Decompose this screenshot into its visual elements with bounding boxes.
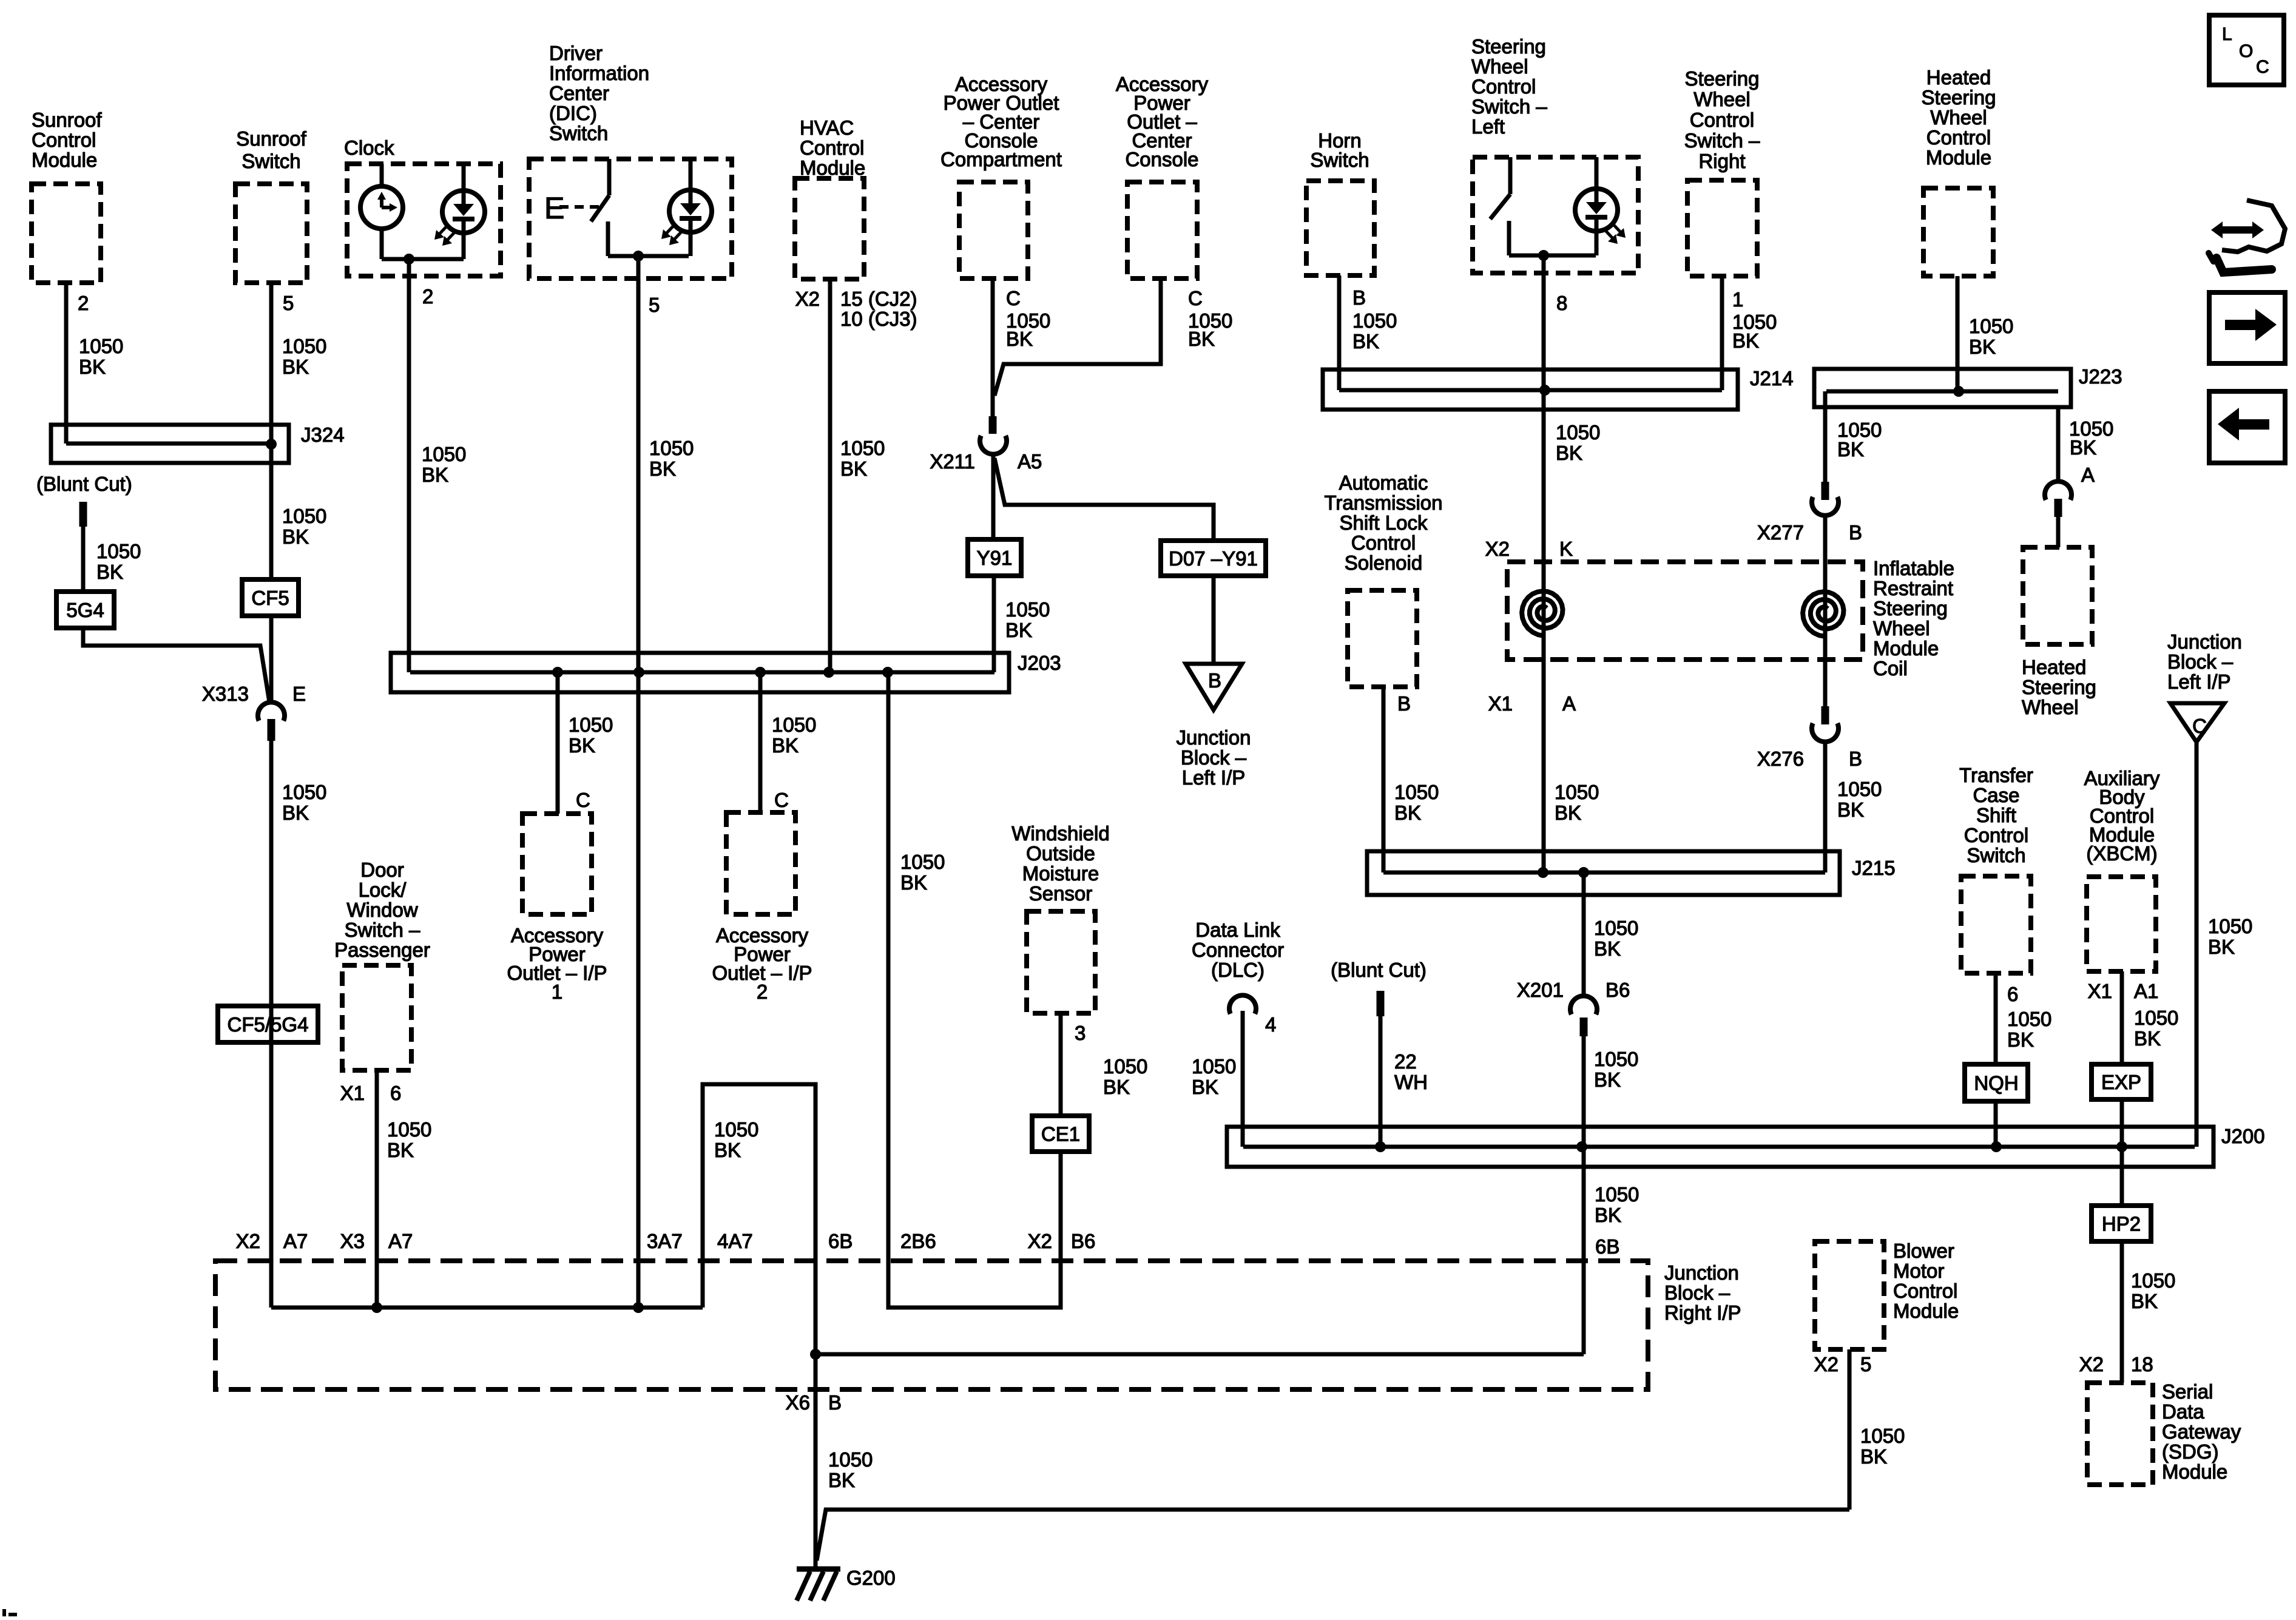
svg-text:Steering: Steering [1922, 86, 1996, 109]
svg-text:1050: 1050 [1103, 1055, 1147, 1078]
svg-text:X1: X1 [2088, 980, 2112, 1002]
svg-text:Module: Module [800, 157, 865, 179]
svg-text:Module: Module [1926, 146, 1991, 169]
svg-text:5: 5 [1860, 1353, 1871, 1375]
svg-text:BK: BK [1837, 438, 1864, 461]
svg-text:3A7: 3A7 [647, 1230, 683, 1252]
svg-text:BK: BK [1837, 798, 1864, 821]
svg-text:Switch: Switch [1967, 844, 2025, 866]
svg-text:Heated: Heated [2022, 656, 2086, 678]
svg-text:O: O [2239, 41, 2253, 61]
svg-text:15 (CJ2): 15 (CJ2) [840, 288, 917, 310]
svg-text:6: 6 [390, 1082, 401, 1104]
svg-text:B: B [1208, 669, 1221, 692]
svg-text:X3: X3 [340, 1230, 365, 1252]
svg-text:BK: BK [79, 356, 106, 378]
svg-text:C: C [2192, 715, 2207, 737]
svg-text:5G4: 5G4 [66, 599, 104, 621]
svg-text:Junction: Junction [1177, 726, 1251, 749]
svg-text:Block –: Block – [2167, 650, 2234, 673]
svg-text:X277: X277 [1757, 521, 1804, 544]
svg-text:2: 2 [78, 292, 89, 314]
svg-text:Sunroof: Sunroof [236, 127, 306, 150]
svg-text:1050: 1050 [1595, 1183, 1639, 1206]
svg-text:(XBCM): (XBCM) [2086, 842, 2157, 865]
svg-text:Junction: Junction [2167, 630, 2242, 653]
svg-text:Restraint: Restraint [1873, 577, 1953, 599]
svg-text:1: 1 [552, 980, 562, 1003]
svg-text:BK: BK [2007, 1028, 2034, 1051]
svg-text:EXP: EXP [2101, 1071, 2141, 1093]
svg-text:18: 18 [2131, 1353, 2153, 1375]
svg-text:BK: BK [2134, 1027, 2161, 1050]
svg-text:1050: 1050 [1837, 778, 1882, 800]
svg-text:BK: BK [2131, 1290, 2158, 1312]
svg-text:WH: WH [1394, 1071, 1428, 1093]
svg-text:Windshield: Windshield [1011, 822, 1109, 845]
svg-text:1050: 1050 [772, 714, 816, 736]
svg-text:J200: J200 [2221, 1125, 2265, 1147]
svg-text:HVAC: HVAC [800, 116, 854, 139]
svg-text:X6: X6 [786, 1391, 810, 1414]
svg-text:Block –: Block – [1181, 746, 1247, 769]
svg-text:Module: Module [1893, 1300, 1959, 1322]
svg-text:Left I/P: Left I/P [2167, 670, 2231, 693]
svg-text:Passenger: Passenger [334, 939, 430, 961]
svg-text:X2: X2 [795, 288, 820, 310]
svg-text:Shift: Shift [1976, 804, 2016, 826]
svg-text:BK: BK [1006, 328, 1033, 350]
svg-text:1050: 1050 [1352, 309, 1397, 332]
svg-text:Center: Center [549, 82, 609, 104]
svg-text:C: C [774, 789, 789, 811]
svg-text:G200: G200 [846, 1567, 896, 1589]
svg-text:NQH: NQH [1974, 1072, 2018, 1095]
svg-text:BK: BK [1594, 937, 1621, 960]
svg-text:Y91: Y91 [977, 547, 1013, 569]
svg-text:1050: 1050 [900, 851, 945, 873]
svg-text:1050: 1050 [569, 714, 613, 736]
svg-text:1050: 1050 [2208, 915, 2252, 937]
svg-text:Window: Window [346, 899, 418, 921]
svg-text:Information: Information [549, 62, 649, 84]
svg-text:BK: BK [1394, 802, 1421, 824]
svg-text:8: 8 [1556, 292, 1567, 314]
svg-text:(DLC): (DLC) [1211, 959, 1264, 981]
svg-text:Control: Control [1893, 1280, 1957, 1302]
svg-text:X276: X276 [1757, 748, 1804, 770]
svg-text:BK: BK [1555, 802, 1581, 824]
svg-text:BK: BK [1352, 330, 1379, 353]
svg-text:Moisture: Moisture [1022, 862, 1099, 885]
svg-text:A1: A1 [2134, 980, 2158, 1002]
svg-text:1050: 1050 [282, 505, 326, 527]
svg-text:1050: 1050 [1192, 1055, 1236, 1078]
svg-text:BK: BK [2208, 936, 2235, 958]
svg-text:CE1: CE1 [1041, 1123, 1080, 1146]
svg-text:Driver: Driver [549, 42, 603, 64]
svg-text:A5: A5 [1018, 450, 1042, 473]
svg-text:BK: BK [772, 734, 799, 757]
svg-text:Wheel: Wheel [1471, 55, 1528, 78]
svg-text:1050: 1050 [1555, 781, 1599, 803]
svg-text:Compartment: Compartment [940, 148, 1062, 170]
svg-text:Connector: Connector [1192, 939, 1284, 961]
svg-text:1050: 1050 [1969, 315, 2013, 337]
svg-text:1050: 1050 [2134, 1007, 2178, 1029]
svg-text:D07 –Y91: D07 –Y91 [1169, 547, 1258, 570]
svg-text:Switch –: Switch – [1684, 129, 1760, 152]
svg-text:Console: Console [1125, 148, 1198, 170]
svg-text:C: C [2256, 57, 2269, 77]
svg-text:X211: X211 [930, 450, 975, 473]
svg-text:Control: Control [32, 129, 96, 151]
svg-text:Case: Case [1973, 784, 2019, 806]
svg-text:BK: BK [1594, 1068, 1621, 1091]
svg-text:Switch –: Switch – [1471, 95, 1547, 118]
svg-text:Left I/P: Left I/P [1182, 766, 1246, 789]
svg-text:Transfer: Transfer [1959, 764, 2033, 786]
svg-text:1050: 1050 [2131, 1269, 2175, 1292]
svg-text:5: 5 [649, 294, 660, 316]
svg-text:1: 1 [1732, 288, 1743, 311]
svg-text:B: B [1352, 286, 1366, 309]
svg-text:X1: X1 [340, 1082, 365, 1104]
svg-text:1050: 1050 [387, 1118, 431, 1141]
svg-text:C: C [576, 789, 590, 811]
svg-text:A7: A7 [283, 1230, 308, 1252]
svg-text:22: 22 [1394, 1050, 1417, 1073]
svg-text:BK: BK [1556, 442, 1582, 464]
svg-text:Blower: Blower [1893, 1240, 1954, 1262]
svg-text:Switch –: Switch – [345, 919, 420, 941]
svg-text:Control: Control [1471, 75, 1536, 98]
svg-text:J214: J214 [1750, 367, 1794, 390]
svg-text:X2: X2 [1028, 1230, 1052, 1252]
svg-text:1050: 1050 [1860, 1425, 1905, 1447]
svg-text:Inflatable: Inflatable [1873, 557, 1954, 579]
svg-text:Serial: Serial [2162, 1380, 2213, 1403]
svg-text:Coil: Coil [1873, 657, 1908, 680]
svg-text:1050: 1050 [1394, 781, 1439, 803]
svg-text:2B6: 2B6 [900, 1230, 936, 1252]
svg-text:A7: A7 [388, 1230, 413, 1252]
svg-text:BK: BK [282, 802, 309, 824]
svg-text:Module: Module [1873, 637, 1939, 660]
svg-text:1050: 1050 [1005, 598, 1050, 621]
svg-text:Sunroof: Sunroof [32, 109, 102, 131]
svg-text:Clock: Clock [344, 137, 394, 159]
svg-text:1050: 1050 [79, 335, 123, 357]
svg-text:Steering: Steering [2022, 676, 2096, 698]
svg-text:1050: 1050 [96, 540, 141, 562]
svg-text:BK: BK [1860, 1445, 1887, 1468]
svg-text:Junction: Junction [1664, 1261, 1739, 1284]
svg-text:X313: X313 [202, 683, 249, 705]
svg-text:BK: BK [900, 871, 927, 894]
svg-text:CF5: CF5 [251, 587, 289, 609]
svg-text:B: B [1849, 748, 1862, 770]
svg-text:BK: BK [1732, 329, 1759, 352]
svg-text:6B: 6B [828, 1230, 853, 1252]
svg-text:Steering: Steering [1873, 597, 1948, 619]
svg-text:1050: 1050 [1594, 1048, 1638, 1070]
svg-text:Wheel: Wheel [2022, 696, 2079, 718]
svg-text:4: 4 [1265, 1013, 1276, 1036]
svg-text:BK: BK [828, 1469, 855, 1491]
svg-text:3: 3 [1075, 1022, 1086, 1044]
svg-text:1050: 1050 [282, 335, 326, 357]
svg-text:HP2: HP2 [2102, 1213, 2141, 1235]
svg-text:Heated: Heated [1926, 66, 1991, 89]
svg-text:C: C [1188, 287, 1203, 309]
svg-text:Gateway: Gateway [2162, 1420, 2241, 1443]
svg-text:BK: BK [1192, 1076, 1218, 1098]
svg-text:Solenoid: Solenoid [1345, 552, 1422, 574]
svg-text:BK: BK [96, 561, 123, 583]
svg-text:Switch: Switch [241, 150, 300, 172]
svg-text:Control: Control [1926, 126, 1991, 149]
svg-text:BK: BK [1969, 336, 1996, 358]
svg-text:10 (CJ3): 10 (CJ3) [840, 308, 917, 330]
svg-text:Steering: Steering [1471, 35, 1546, 58]
svg-text:BK: BK [569, 734, 595, 757]
svg-text:J203: J203 [1018, 652, 1061, 674]
svg-text:1050: 1050 [2007, 1008, 2051, 1030]
svg-text:Door: Door [360, 859, 404, 881]
svg-text:J324: J324 [301, 424, 345, 446]
svg-text:(Blunt Cut): (Blunt Cut) [36, 473, 132, 495]
svg-text:Module: Module [2162, 1460, 2227, 1483]
svg-text:X2: X2 [1485, 538, 1510, 560]
svg-text:Right I/P: Right I/P [1664, 1301, 1741, 1324]
svg-text:Control: Control [1351, 532, 1416, 554]
svg-text:L: L [2222, 24, 2232, 44]
svg-text:Control: Control [1964, 824, 2028, 846]
svg-text:Block –: Block – [1664, 1281, 1730, 1304]
svg-text:1050: 1050 [282, 781, 326, 803]
svg-text:BK: BK [714, 1139, 741, 1161]
svg-text:BK: BK [1595, 1204, 1621, 1226]
svg-text:B6: B6 [1071, 1230, 1095, 1252]
svg-text:B6: B6 [1606, 979, 1630, 1001]
svg-text:BK: BK [282, 525, 309, 548]
svg-text:Transmission: Transmission [1325, 491, 1443, 514]
svg-text:CF5/5G4: CF5/5G4 [228, 1013, 309, 1036]
svg-text:Data: Data [2162, 1400, 2204, 1423]
svg-text:1050: 1050 [714, 1118, 758, 1141]
svg-text:Control: Control [800, 137, 864, 159]
svg-text:B: B [1849, 521, 1862, 544]
svg-text:J215: J215 [1852, 857, 1896, 879]
svg-text:BK: BK [1005, 619, 1032, 641]
svg-text:1050: 1050 [828, 1448, 873, 1471]
svg-text:5: 5 [283, 292, 294, 314]
svg-text:B: B [828, 1391, 842, 1414]
svg-text:Automatic: Automatic [1339, 471, 1428, 494]
svg-text:C: C [1006, 287, 1021, 309]
svg-text:2: 2 [757, 980, 768, 1003]
svg-text:BK: BK [1188, 328, 1215, 350]
svg-text:1050: 1050 [649, 437, 694, 459]
svg-text:Data Link: Data Link [1195, 919, 1280, 941]
svg-text:B: B [1397, 692, 1411, 715]
svg-text:X2: X2 [236, 1230, 260, 1252]
svg-text:Motor: Motor [1893, 1260, 1944, 1282]
svg-text:BK: BK [2070, 436, 2096, 459]
svg-text:Shift Lock: Shift Lock [1340, 511, 1428, 534]
svg-text:Outside: Outside [1026, 842, 1095, 865]
svg-text:X2: X2 [1814, 1353, 1838, 1375]
svg-text:6: 6 [2007, 983, 2018, 1005]
svg-text:1050: 1050 [422, 443, 466, 465]
svg-text:(Blunt Cut): (Blunt Cut) [1331, 959, 1427, 981]
svg-text:4A7: 4A7 [717, 1230, 753, 1252]
svg-text:Left: Left [1471, 115, 1505, 138]
svg-text:J223: J223 [2079, 365, 2122, 388]
svg-text:E: E [292, 683, 306, 705]
svg-text:BK: BK [282, 356, 309, 378]
svg-text:Module: Module [32, 149, 97, 171]
svg-text:BK: BK [387, 1139, 414, 1161]
svg-text:K: K [1559, 538, 1573, 560]
svg-text:6B: 6B [1595, 1235, 1619, 1258]
svg-text:BK: BK [422, 464, 448, 486]
svg-text:Switch: Switch [1310, 149, 1369, 171]
svg-text:2: 2 [422, 285, 433, 308]
svg-text:1050: 1050 [840, 437, 885, 459]
svg-text:Control: Control [1690, 109, 1754, 131]
svg-text:Sensor: Sensor [1029, 882, 1093, 905]
svg-text:Right: Right [1698, 150, 1745, 172]
svg-text:Switch: Switch [549, 122, 608, 144]
svg-text:X2: X2 [2079, 1353, 2104, 1375]
svg-text:A: A [2081, 464, 2095, 486]
svg-text:X201: X201 [1517, 979, 1564, 1001]
svg-text:Wheel: Wheel [1693, 88, 1751, 110]
svg-text:Steering: Steering [1685, 67, 1760, 90]
svg-text:BK: BK [649, 457, 676, 480]
svg-text:X1: X1 [1488, 692, 1513, 715]
svg-text:Lock/: Lock/ [359, 879, 407, 901]
svg-text:Wheel: Wheel [1873, 617, 1930, 640]
svg-text:BK: BK [1103, 1076, 1130, 1098]
svg-text:1050: 1050 [1556, 421, 1600, 444]
svg-text:1050: 1050 [1594, 917, 1638, 939]
svg-text:A: A [1562, 692, 1576, 715]
svg-text:(DIC): (DIC) [549, 102, 597, 124]
svg-text:BK: BK [840, 457, 867, 480]
svg-text:(SDG): (SDG) [2162, 1440, 2219, 1463]
svg-text:Wheel: Wheel [1930, 106, 1987, 129]
